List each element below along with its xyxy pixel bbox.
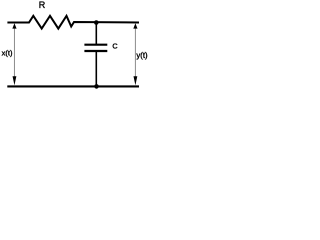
svg-text:C: C bbox=[112, 42, 117, 51]
svg-text:x(t): x(t) bbox=[2, 48, 13, 57]
svg-text:R: R bbox=[39, 0, 46, 10]
svg-text:y(t): y(t) bbox=[136, 51, 148, 60]
